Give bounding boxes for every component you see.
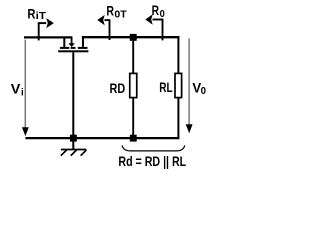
junction: top node (drain) xyxy=(130,34,137,41)
gate bar xyxy=(58,50,88,52)
svg-text:iT: iT xyxy=(36,11,46,22)
label R0T xyxy=(106,3,126,21)
source contact bar xyxy=(60,47,69,49)
drain lead xyxy=(82,36,84,47)
label R0 xyxy=(152,2,166,20)
ground xyxy=(61,138,87,156)
body arrow (ties to source wire) xyxy=(71,37,73,43)
svg-text:0T: 0T xyxy=(114,9,126,20)
svg-text:R: R xyxy=(27,5,35,21)
label V0 xyxy=(192,79,206,97)
brace under RD/RL xyxy=(122,145,185,151)
transistor Q1 (MOSFET, rotated: gate bar at bottom) xyxy=(58,36,88,138)
arrow RiT (input resistance, elbow up-right) xyxy=(38,18,54,40)
source lead xyxy=(63,38,65,47)
svg-text:Rd = RD || RL: Rd = RD || RL xyxy=(118,153,186,169)
wire: RD bottom lead xyxy=(132,98,134,138)
wire: RL top lead (corner from top wire) xyxy=(177,36,179,73)
body contact bar xyxy=(71,47,76,49)
arrow R0T (elbow up-left) xyxy=(97,15,110,40)
svg-text:RL: RL xyxy=(159,79,173,95)
svg-text:i: i xyxy=(21,88,24,99)
arrow R0 (elbow up-left) xyxy=(145,14,163,40)
wire: RD top lead xyxy=(132,40,134,73)
resistor RD (box) xyxy=(130,73,137,97)
wire: RL bottom lead xyxy=(177,98,179,138)
wire: bottom horizontal xyxy=(25,137,179,139)
svg-text:RD: RD xyxy=(110,80,126,96)
svg-text:R: R xyxy=(106,3,114,19)
junction: RD bottom xyxy=(130,135,137,142)
svg-text:0: 0 xyxy=(201,86,207,97)
label Vi xyxy=(11,80,24,98)
arrow Vi (gray voltage arrow down) xyxy=(22,40,29,137)
drain contact bar xyxy=(78,47,88,49)
svg-text:R: R xyxy=(152,2,159,18)
svg-text:V: V xyxy=(11,80,21,96)
gate lead down xyxy=(72,52,74,138)
junction: bottom node (FET/ground) xyxy=(70,135,77,142)
wire: top-left (gate-side) horizontal xyxy=(24,36,72,38)
wire: top-right (drain-side) horizontal xyxy=(82,36,180,38)
resistor RL (box) xyxy=(175,73,182,97)
arrow V0 (gray voltage arrow down) xyxy=(186,38,193,133)
svg-text:0: 0 xyxy=(160,9,166,20)
label RiT xyxy=(27,5,46,22)
